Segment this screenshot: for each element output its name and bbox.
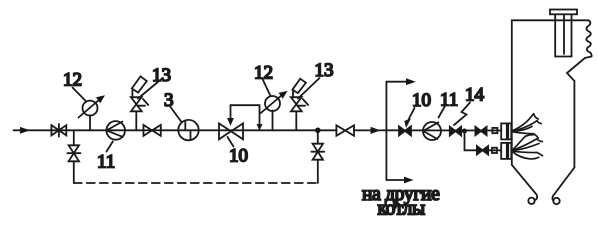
gauge 12 arrow — [79, 100, 100, 118]
label 12 leader — [73, 88, 86, 101]
gauge 12b stem — [272, 111, 274, 131]
meter 11b (circle with slash) — [423, 122, 441, 140]
chimney cap — [550, 10, 577, 15]
svg-text:котлы: котлы — [378, 199, 426, 220]
regulator actuator arrow — [230, 105, 232, 120]
inlet flow arrow — [21, 128, 29, 133]
valve 10b (small) — [399, 126, 411, 135]
valve 14 (small) — [450, 127, 461, 136]
svg-text:13: 13 — [315, 60, 334, 81]
boiler right squiggle edge — [586, 20, 591, 56]
regulator 10 valve body — [219, 123, 243, 139]
svg-text:11: 11 — [440, 90, 458, 111]
label 10b leader — [408, 108, 415, 122]
burner lower inner — [508, 143, 511, 159]
svg-text:3: 3 — [164, 90, 174, 111]
svg-text:14: 14 — [465, 85, 485, 106]
header bottom arrow — [386, 179, 407, 181]
gauge 12b arrow — [261, 95, 282, 113]
valve (gate) leftmost — [51, 124, 66, 137]
svg-text:13: 13 — [152, 65, 171, 86]
gauge 12 (pressure gauge) — [83, 101, 98, 116]
svg-text:10: 10 — [412, 90, 431, 111]
label 13 leader — [138, 79, 162, 99]
safety valve 13b flag — [292, 79, 306, 93]
header to other boilers vertical — [385, 82, 387, 180]
boiler notch — [567, 57, 592, 82]
burner upper inner — [508, 123, 511, 139]
label 12b leader — [263, 79, 271, 96]
svg-text:11: 11 — [97, 151, 115, 172]
node burner split — [462, 129, 467, 134]
safety valve 13 hourglass — [131, 97, 142, 111]
flames lower burner — [513, 135, 543, 159]
valve (vertical) left drop — [67, 145, 80, 161]
flow meter 3 (circle with offset chords) — [178, 120, 198, 140]
wire main line right of valve — [354, 129, 501, 131]
safety valve 13 flag — [132, 76, 147, 92]
safety valve 13b hourglass — [291, 97, 302, 111]
flange square upper — [492, 128, 497, 133]
safety valve 13b stem — [295, 111, 297, 130]
wire drop right — [317, 130, 319, 143]
burner upper outer — [501, 123, 507, 139]
boiler right wall — [573, 81, 575, 168]
label 13b leader — [298, 78, 320, 99]
wire lower branch — [465, 149, 502, 151]
wire dashed purge line — [74, 182, 318, 184]
label 11b leader — [439, 106, 446, 118]
wire drop to purge header — [73, 161, 75, 183]
chimney outer right — [571, 14, 573, 56]
label 11 leader — [107, 142, 113, 152]
label 10 leader — [228, 137, 234, 147]
node tee to drop line — [73, 130, 75, 145]
flow arrow mid-line — [371, 128, 379, 134]
flames upper burner — [513, 114, 542, 138]
meter 11 (circle with slash) — [106, 121, 125, 140]
regulator impulse line — [231, 105, 260, 126]
valve upper burner — [475, 127, 486, 135]
svg-text:12: 12 — [254, 63, 273, 84]
svg-text:10: 10 — [229, 146, 248, 167]
boiler top line — [512, 19, 589, 21]
flange square lower — [492, 148, 497, 153]
svg-text:12: 12 — [63, 69, 82, 90]
label 3 leader — [171, 107, 182, 122]
safety valve 13 stem — [135, 111, 137, 130]
valve (vertical) right drop — [311, 144, 324, 160]
gauge 12 stem — [89, 115, 91, 130]
burner lower outer — [501, 143, 507, 159]
valve lower burner — [477, 146, 488, 154]
boiler left wall — [511, 20, 513, 165]
boiler left bottom hook — [512, 165, 537, 200]
boiler right bottom hook — [552, 168, 574, 201]
label 14 leader zigzag — [454, 103, 470, 126]
valve main after dot — [336, 125, 354, 136]
gauge 12b (pressure gauge) — [265, 96, 280, 111]
chimney bottom — [555, 56, 571, 58]
node junction dot — [315, 128, 321, 134]
chimney outer left — [554, 14, 556, 56]
chimney inner — [563, 14, 565, 54]
wire split vertical — [464, 131, 466, 150]
valve after meter — [144, 125, 161, 136]
wire main gas line — [14, 129, 337, 131]
wire drop to purge line — [317, 160, 319, 183]
header top arrow — [386, 81, 410, 83]
